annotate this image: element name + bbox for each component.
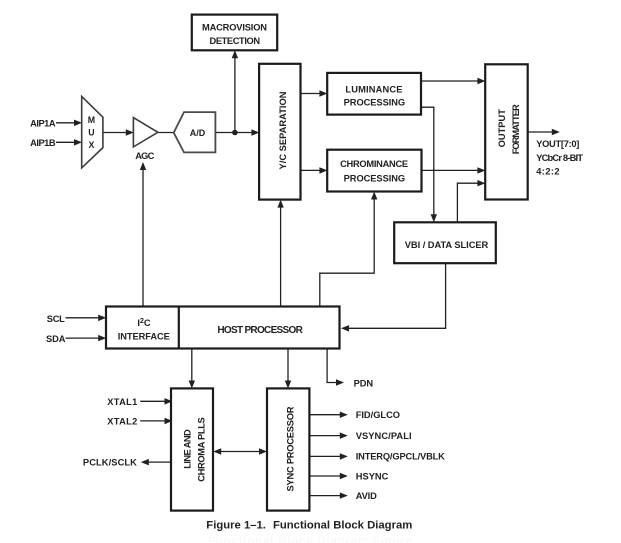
svg-text:CHROMINANCE: CHROMINANCE (340, 159, 408, 169)
svg-text:PDN: PDN (354, 379, 374, 389)
svg-text:AGC: AGC (135, 151, 154, 161)
svg-text:VSYNC/PALI: VSYNC/PALI (356, 431, 412, 441)
svg-text:OUTPUT: OUTPUT (497, 109, 507, 148)
svg-text:AVID: AVID (356, 491, 377, 501)
svg-text:HOST PROCESSOR: HOST PROCESSOR (217, 325, 303, 336)
svg-text:Functional Block Diagram Figur: Functional Block Diagram Figure (208, 535, 412, 543)
svg-text:4:2:2: 4:2:2 (536, 166, 559, 176)
svg-text:SYNC PROCESSOR: SYNC PROCESSOR (285, 406, 295, 491)
svg-text:Y/C SEPARATION: Y/C SEPARATION (278, 91, 288, 169)
svg-text:CHROMA PLLS: CHROMA PLLS (197, 417, 207, 482)
svg-text:VBI / DATA SLICER: VBI / DATA SLICER (405, 240, 489, 250)
svg-text:YCbCr 8-BIT: YCbCr 8-BIT (536, 153, 583, 163)
svg-text:LINE AND: LINE AND (182, 429, 192, 469)
svg-text:INTERQ/GPCL/VBLK: INTERQ/GPCL/VBLK (356, 452, 445, 462)
svg-text:FID/GLCO: FID/GLCO (356, 410, 400, 420)
svg-text:FORMATTER: FORMATTER (511, 104, 521, 154)
svg-text:HSYNC: HSYNC (356, 471, 389, 481)
svg-text:AIP1A: AIP1A (30, 119, 56, 129)
svg-text:YOUT[7:0]: YOUT[7:0] (536, 139, 579, 149)
svg-text:I2C: I2C (137, 318, 151, 328)
svg-text:SDA: SDA (46, 334, 66, 344)
svg-text:X: X (88, 140, 94, 150)
svg-text:XTAL1: XTAL1 (107, 397, 137, 407)
svg-text:LUMINANCE: LUMINANCE (345, 84, 402, 94)
svg-text:INTERFACE: INTERFACE (118, 332, 170, 342)
svg-text:DETECTION: DETECTION (210, 36, 261, 46)
svg-text:A/D: A/D (190, 128, 206, 138)
svg-text:PCLK/SCLK: PCLK/SCLK (83, 458, 137, 468)
svg-text:PROCESSING: PROCESSING (344, 173, 406, 183)
svg-text:XTAL2: XTAL2 (107, 416, 137, 426)
svg-text:SCL: SCL (47, 314, 65, 324)
svg-text:U: U (88, 128, 94, 138)
svg-text:PROCESSING: PROCESSING (344, 97, 406, 107)
svg-text:M: M (88, 115, 95, 125)
svg-text:MACROVISION: MACROVISION (202, 23, 267, 33)
svg-text:AIP1B: AIP1B (30, 138, 56, 148)
svg-text:Figure 1–1.Functional Block Di: Figure 1–1.Functional Block Diagram (206, 520, 412, 532)
